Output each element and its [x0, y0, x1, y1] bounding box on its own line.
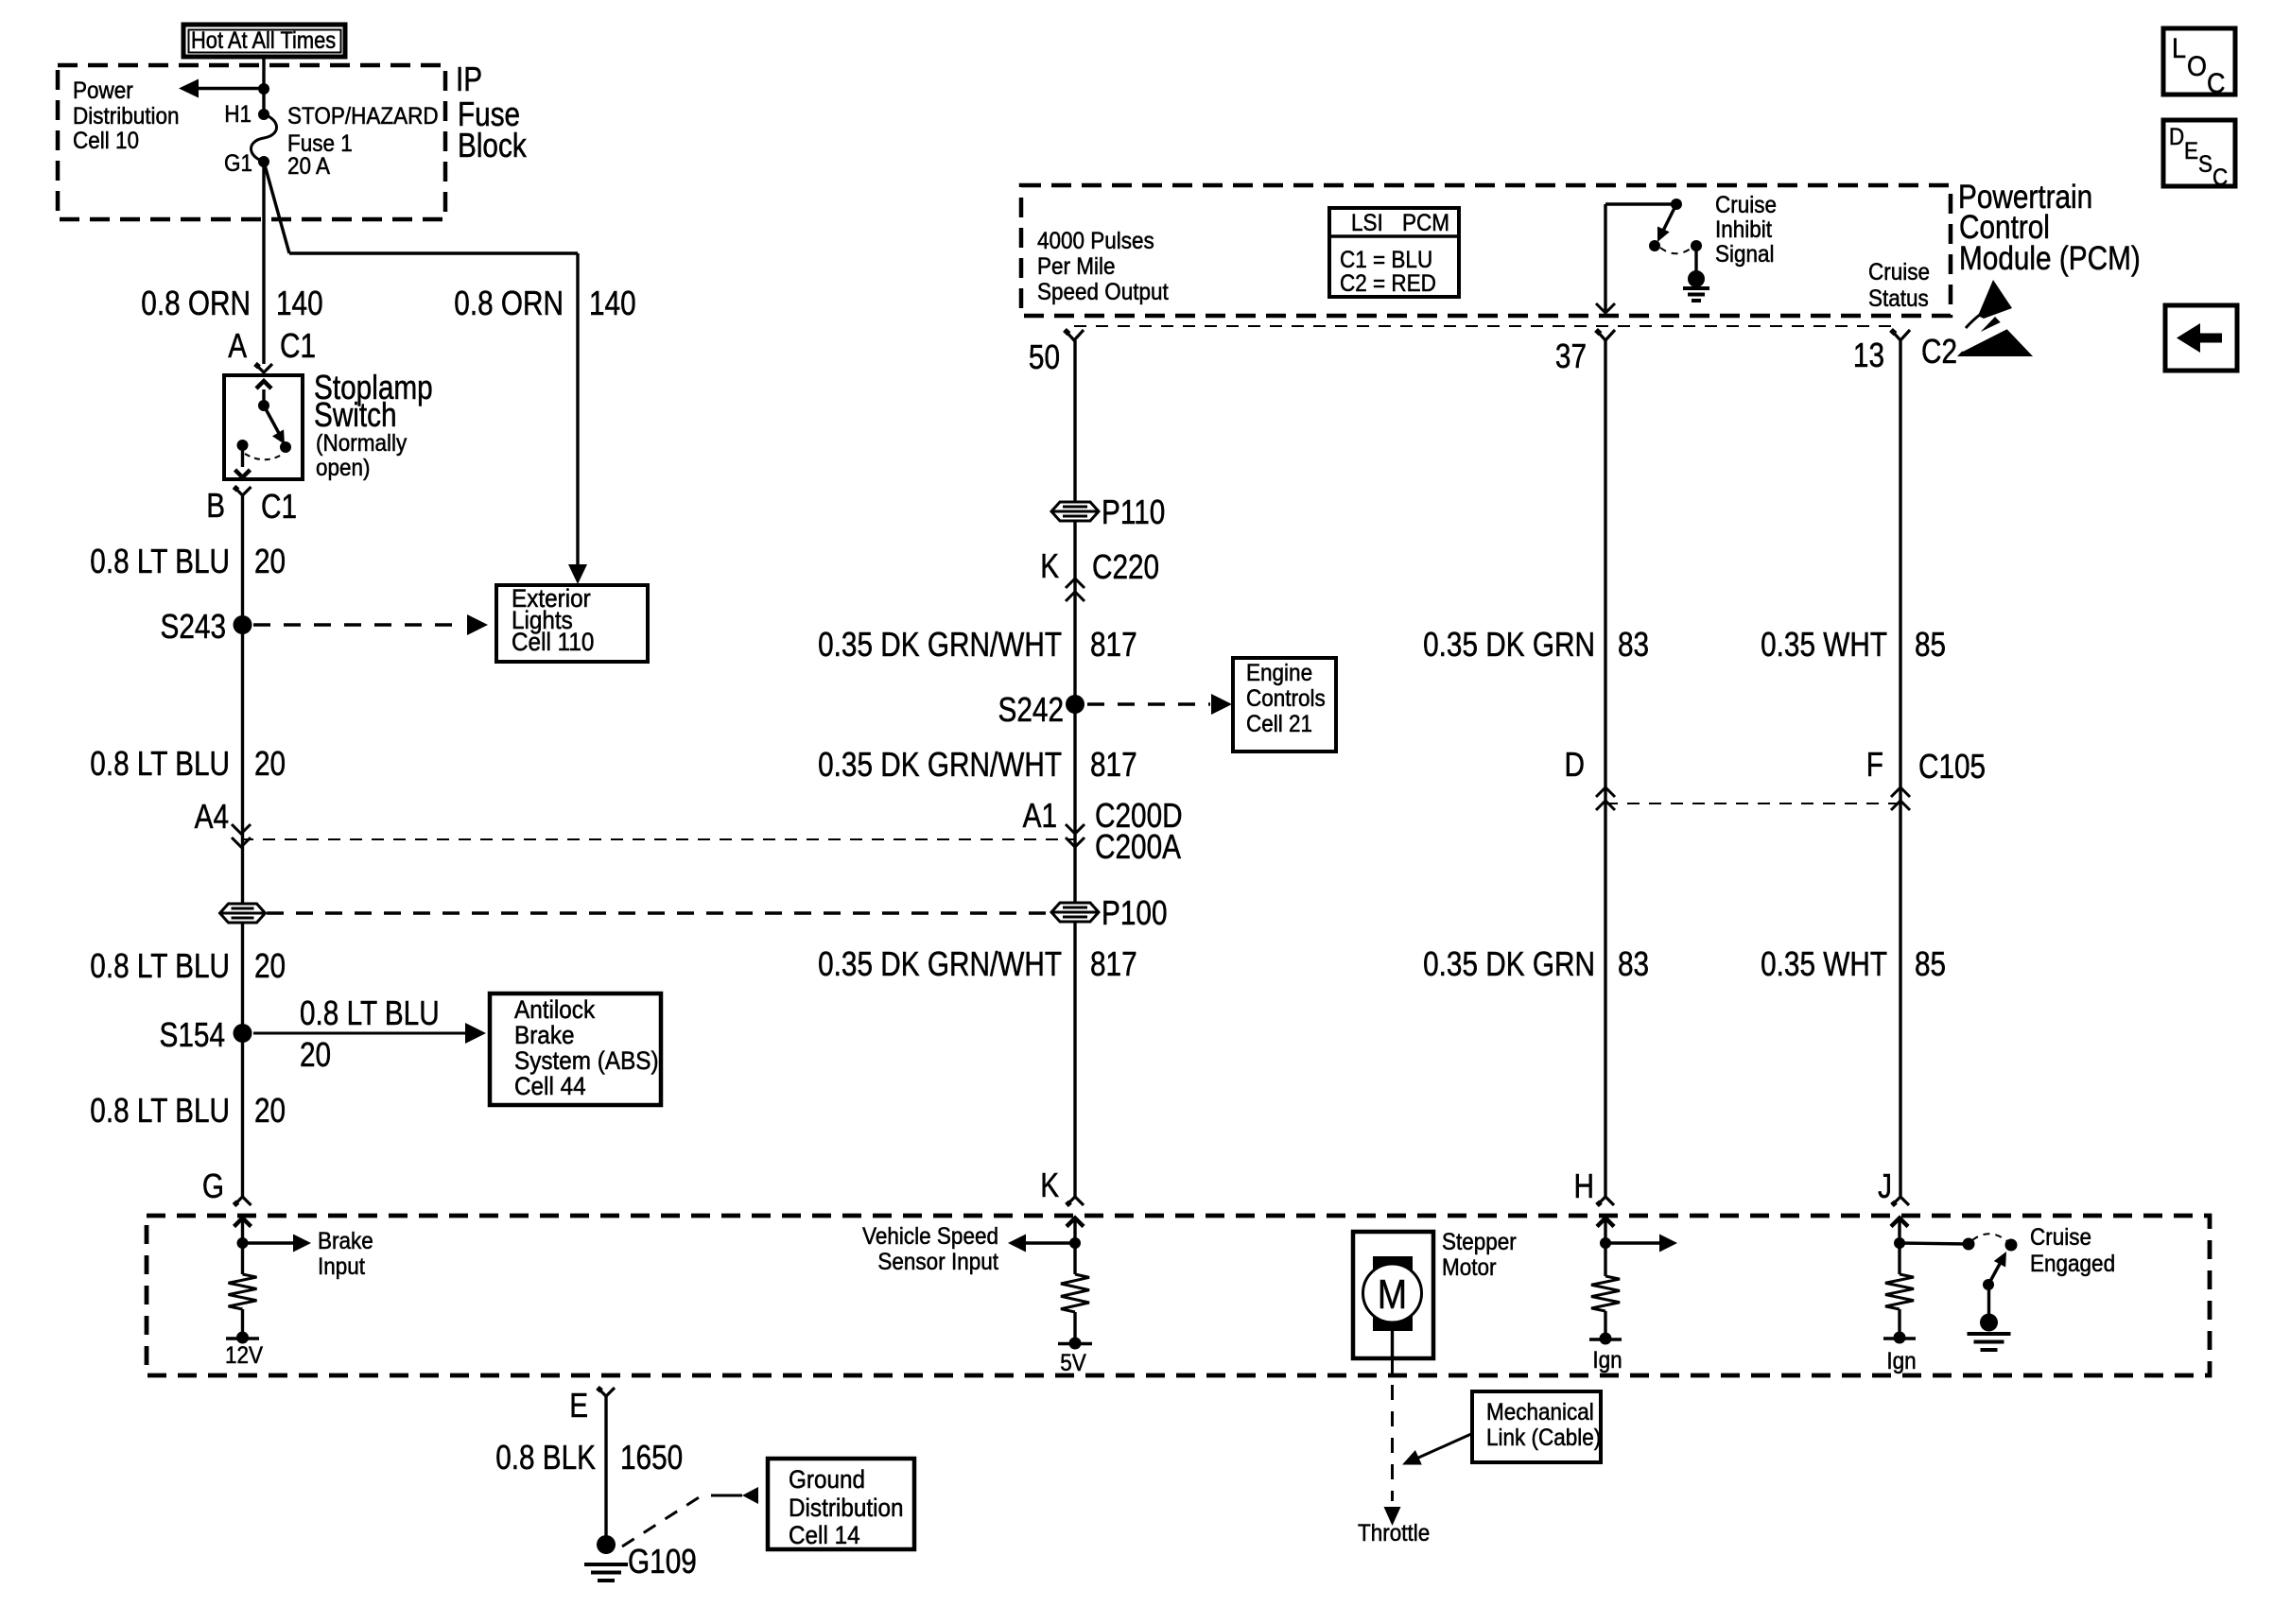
svg-text:C: C [2212, 164, 2228, 191]
svg-text:C2: C2 [1921, 332, 1957, 371]
svg-text:0.35 DK GRN/WHT: 0.35 DK GRN/WHT [818, 745, 1062, 784]
svg-text:C1: C1 [261, 487, 297, 526]
svg-text:M: M [1378, 1271, 1407, 1318]
svg-text:G109: G109 [628, 1542, 697, 1581]
svg-text:Cell 10: Cell 10 [73, 128, 139, 154]
svg-text:E: E [569, 1386, 588, 1425]
svg-text:817: 817 [1090, 625, 1137, 664]
svg-text:20: 20 [254, 542, 286, 580]
svg-text:5V: 5V [1060, 1350, 1086, 1376]
svg-text:Block: Block [458, 126, 527, 164]
svg-text:Cruise: Cruise [2030, 1224, 2091, 1251]
svg-text:F: F [1866, 745, 1883, 784]
svg-text:817: 817 [1090, 745, 1137, 784]
svg-text:1650: 1650 [620, 1438, 683, 1477]
svg-text:Input: Input [318, 1253, 365, 1280]
svg-text:20: 20 [254, 744, 286, 783]
svg-text:B: B [206, 486, 225, 525]
svg-text:Mechanical: Mechanical [1486, 1399, 1594, 1425]
svg-text:85: 85 [1915, 625, 1946, 664]
svg-text:0.35 DK GRN/WHT: 0.35 DK GRN/WHT [818, 944, 1062, 983]
svg-text:83: 83 [1618, 625, 1649, 664]
svg-text:S242: S242 [998, 690, 1065, 729]
svg-text:K: K [1040, 546, 1059, 585]
svg-text:C2 = RED: C2 = RED [1340, 270, 1436, 297]
svg-text:Hot At All Times: Hot At All Times [191, 27, 336, 54]
svg-text:4000 Pulses: 4000 Pulses [1037, 228, 1154, 254]
svg-text:0.8 LT BLU: 0.8 LT BLU [90, 744, 230, 783]
svg-text:0.35 WHT: 0.35 WHT [1761, 944, 1887, 983]
svg-text:S: S [2198, 151, 2212, 178]
svg-text:IP: IP [456, 60, 482, 98]
svg-text:Distribution: Distribution [73, 103, 180, 130]
svg-text:Cruise: Cruise [1715, 192, 1777, 218]
svg-text:D: D [2169, 124, 2184, 150]
svg-text:Brake: Brake [318, 1228, 373, 1254]
svg-text:H1: H1 [224, 101, 252, 128]
svg-text:Per Mile: Per Mile [1037, 253, 1116, 280]
svg-text:Engine: Engine [1246, 660, 1312, 686]
svg-text:Distribution: Distribution [789, 1494, 904, 1522]
svg-text:85: 85 [1915, 944, 1946, 983]
svg-text:Module (PCM): Module (PCM) [1959, 240, 2141, 277]
svg-text:50: 50 [1029, 337, 1060, 376]
svg-text:E: E [2184, 138, 2198, 164]
svg-text:0.8 BLK: 0.8 BLK [495, 1438, 596, 1477]
svg-text:140: 140 [276, 284, 323, 322]
svg-text:20: 20 [254, 946, 286, 985]
svg-text:O: O [2187, 51, 2207, 82]
svg-text:Antilock: Antilock [514, 995, 596, 1024]
svg-text:0.35 DK GRN/WHT: 0.35 DK GRN/WHT [818, 625, 1062, 664]
svg-text:0.8 ORN: 0.8 ORN [454, 284, 564, 322]
svg-text:Brake: Brake [514, 1021, 575, 1049]
svg-text:Cell 14: Cell 14 [789, 1521, 860, 1549]
svg-text:K: K [1040, 1166, 1059, 1204]
svg-text:J: J [1878, 1166, 1892, 1205]
svg-text:C1: C1 [280, 326, 316, 365]
svg-text:A: A [228, 326, 247, 365]
svg-text:0.35 DK GRN: 0.35 DK GRN [1423, 944, 1595, 983]
svg-text:37: 37 [1555, 337, 1587, 375]
svg-text:12V: 12V [225, 1342, 263, 1369]
svg-text:H: H [1574, 1166, 1595, 1205]
svg-text:Link (Cable): Link (Cable) [1486, 1425, 1601, 1451]
svg-text:0.8 ORN: 0.8 ORN [141, 284, 251, 322]
svg-text:L: L [2172, 33, 2186, 64]
svg-text:0.8 LT BLU: 0.8 LT BLU [90, 1091, 230, 1130]
svg-text:20 A: 20 A [287, 153, 330, 180]
svg-text:D: D [1565, 745, 1586, 784]
svg-text:817: 817 [1090, 944, 1137, 983]
svg-text:A1: A1 [1023, 796, 1057, 835]
svg-text:Stepper: Stepper [1442, 1229, 1517, 1255]
svg-text:STOP/HAZARD: STOP/HAZARD [287, 103, 439, 130]
svg-text:LSI: LSI [1351, 210, 1383, 236]
svg-text:P110: P110 [1102, 492, 1165, 531]
svg-text:PCM: PCM [1402, 210, 1449, 236]
svg-text:P100: P100 [1102, 893, 1168, 932]
svg-text:0.35 DK GRN: 0.35 DK GRN [1423, 625, 1595, 664]
svg-text:(Normally: (Normally [316, 430, 408, 457]
svg-text:0.8 LT BLU: 0.8 LT BLU [90, 946, 230, 985]
svg-text:Engaged: Engaged [2030, 1251, 2115, 1277]
svg-text:Power: Power [73, 78, 133, 104]
svg-text:Switch: Switch [314, 395, 397, 434]
svg-text:Cell 21: Cell 21 [1246, 711, 1312, 737]
svg-text:Vehicle Speed: Vehicle Speed [862, 1223, 998, 1250]
svg-text:0.8 LT BLU: 0.8 LT BLU [90, 542, 230, 580]
svg-text:A4: A4 [195, 797, 229, 836]
svg-text:13: 13 [1853, 336, 1884, 374]
svg-text:Speed Output: Speed Output [1037, 279, 1169, 305]
svg-text:83: 83 [1618, 944, 1649, 983]
svg-text:Ground: Ground [789, 1465, 865, 1494]
svg-text:C200A: C200A [1095, 827, 1182, 866]
svg-text:Controls: Controls [1246, 685, 1326, 712]
svg-text:G: G [202, 1166, 224, 1205]
svg-text:140: 140 [589, 284, 636, 322]
svg-text:Ign: Ign [1592, 1347, 1622, 1373]
svg-text:Motor: Motor [1442, 1254, 1497, 1281]
svg-text:Cell 44: Cell 44 [514, 1072, 586, 1100]
svg-text:System (ABS): System (ABS) [514, 1046, 659, 1075]
svg-text:Status: Status [1868, 285, 1929, 312]
svg-text:S154: S154 [160, 1015, 226, 1054]
svg-text:C105: C105 [1918, 747, 1986, 786]
svg-text:0.8 LT BLU: 0.8 LT BLU [300, 993, 440, 1032]
svg-text:Cell 110: Cell 110 [512, 628, 594, 656]
svg-text:Cruise: Cruise [1868, 259, 1930, 285]
svg-text:C1 = BLU: C1 = BLU [1340, 247, 1432, 273]
svg-text:Ign: Ign [1886, 1348, 1916, 1374]
svg-text:S243: S243 [161, 607, 227, 646]
svg-text:G1: G1 [224, 150, 252, 177]
svg-text:C220: C220 [1092, 547, 1159, 586]
svg-text:20: 20 [254, 1091, 286, 1130]
svg-text:open): open) [316, 455, 371, 481]
svg-text:C: C [2207, 68, 2226, 99]
svg-text:Sensor Input: Sensor Input [877, 1249, 998, 1275]
svg-text:Inhibit: Inhibit [1715, 216, 1772, 243]
svg-text:Throttle: Throttle [1358, 1520, 1430, 1546]
svg-text:Signal: Signal [1715, 241, 1775, 268]
svg-text:0.35 WHT: 0.35 WHT [1761, 625, 1887, 664]
svg-text:20: 20 [300, 1035, 331, 1074]
